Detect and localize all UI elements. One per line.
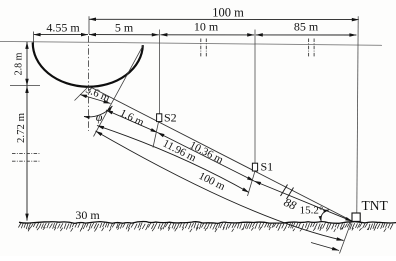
svg-text:88: 88 [282, 195, 299, 213]
svg-text:5 m: 5 m [115, 21, 134, 35]
svg-text:30 m: 30 m [75, 208, 100, 222]
sensor S1 [252, 163, 257, 171]
TNT charge [352, 213, 360, 221]
dimension 2.72 m [26, 86, 28, 221]
extension line S1 top [254, 30, 256, 164]
ground line [19, 221, 396, 223]
lower below-ground dim end [311, 243, 339, 251]
svg-text:S2: S2 [164, 111, 177, 125]
dimension chain 10 m [160, 34, 254, 36]
svg-text:1.6 m: 1.6 m [118, 107, 146, 129]
extension line S2 top [159, 30, 161, 114]
svg-text:100 m: 100 m [212, 5, 244, 19]
dimension 100 m (slant) [96, 131, 344, 241]
svg-text:15.2°: 15.2° [300, 204, 324, 216]
svg-text:85 m: 85 m [294, 20, 319, 34]
svg-text:TNT: TNT [362, 198, 389, 213]
svg-text:S1: S1 [261, 160, 274, 174]
svg-text:10 m: 10 m [194, 20, 219, 34]
break symbol on 2.72 m line [12, 154, 41, 162]
extension below S1 [248, 171, 256, 196]
ground surface line (original grade) [0, 41, 382, 45]
dimension 2.8 m [26, 42, 28, 86]
dimension 3.6 m [80, 95, 111, 104]
angle arc phi [84, 106, 112, 117]
tick at bowl bottom level [10, 85, 40, 87]
sensor S2 [157, 114, 162, 122]
svg-text:100 m: 100 m [197, 170, 228, 193]
break symbol under 85 m [309, 39, 315, 58]
centerline of bowl [88, 36, 90, 131]
dimension 88 with break [254, 181, 352, 221]
dimension line 100 m (top) [89, 18, 359, 20]
extension at vertex [75, 87, 89, 101]
borehole axis [89, 86, 353, 221]
dimension 10.36 m [158, 133, 255, 182]
break symbol under 10 m [201, 39, 207, 58]
angle arc 15.2 deg [321, 210, 329, 222]
dimension chain 85 m [256, 34, 357, 36]
break marks on 88 segment [281, 185, 288, 197]
extension below S2 [153, 122, 159, 148]
ground hatching [18, 223, 393, 233]
extension line TNT top [357, 16, 358, 213]
svg-text:2.72 m: 2.72 m [15, 112, 27, 143]
svg-text:3.6 m: 3.6 m [84, 84, 112, 105]
dimension 11.96 m [97, 126, 249, 193]
extension line bowl left edge [33, 32, 35, 44]
crater bowl [33, 42, 143, 86]
svg-text:4.55 m: 4.55 m [46, 21, 80, 35]
dimension 1.6 m [106, 110, 158, 133]
dimension chain 4.55 m [34, 34, 88, 36]
extension line at x=89 [88, 16, 90, 34]
extension from bowl rim through collar P1 [94, 45, 144, 136]
dimension chain 5 m [89, 34, 159, 36]
svg-text:2.8 m: 2.8 m [14, 52, 25, 75]
svg-text:φ: φ [96, 110, 103, 124]
extension below TNT [340, 217, 354, 254]
